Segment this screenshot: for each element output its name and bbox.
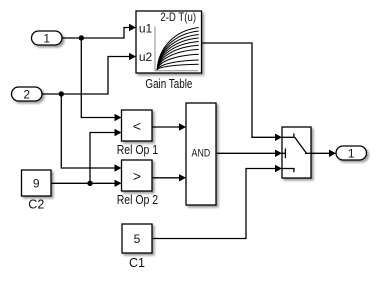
node junction on Inport 1 wire	[79, 35, 84, 40]
wire from constant C2 to Rel Op 2 input 2	[51, 180, 122, 187]
svg-text:Rel Op 1: Rel Op 1	[117, 143, 158, 157]
wire Gain Table output to Switch input 1	[202, 43, 283, 141]
switch input 1 stub	[282, 136, 295, 138]
wire from Inport 2 to Gain Table u2	[42, 53, 136, 94]
constant C1 block (5)	[122, 224, 152, 253]
wire from junction to Rel Op 2 input 1	[61, 94, 121, 172]
switch output stub	[305, 152, 311, 154]
svg-text:<: <	[133, 118, 141, 134]
wire Rel Op 1 output to AND input 1	[152, 123, 186, 130]
constant C2 block (9)	[22, 170, 52, 196]
Rel Op 1 block (<)	[122, 110, 153, 141]
svg-text:u2: u2	[139, 50, 153, 64]
svg-text:>: >	[133, 168, 141, 184]
AND logical operator block	[186, 103, 216, 205]
svg-text:Rel Op 2: Rel Op 2	[117, 193, 158, 207]
wire from junction to Rel Op 1 input 2	[90, 129, 122, 184]
lookup graph curves	[157, 28, 199, 70]
node junction on Inport 2 wire	[59, 91, 64, 96]
lookup graph axes	[155, 27, 198, 71]
svg-text:C2: C2	[28, 198, 44, 212]
Outport 1 oval	[336, 146, 367, 160]
svg-text:C1: C1	[129, 256, 145, 270]
node junction on C2 wire	[87, 181, 92, 186]
Rel Op 2 block (>)	[122, 160, 153, 191]
wire constant C1 to Switch input 3	[152, 165, 282, 239]
wire AND output to Switch input 2	[216, 150, 282, 157]
wire Rel Op 2 output to AND input 2	[152, 174, 186, 181]
svg-text:1: 1	[43, 31, 50, 45]
switch input 3 stub	[282, 168, 295, 170]
svg-text:2-D T(u): 2-D T(u)	[160, 10, 196, 24]
svg-text:9: 9	[33, 177, 40, 191]
2-D Lookup Table block (Gain Table)	[136, 10, 202, 73]
svg-text:Gain Table: Gain Table	[145, 77, 192, 91]
Switch block	[282, 127, 311, 178]
Inport 1 oval	[32, 31, 63, 45]
wire from Inport 1 to Gain Table u1	[62, 24, 136, 38]
svg-text:1: 1	[348, 146, 355, 160]
svg-text:AND: AND	[192, 148, 211, 160]
svg-text:5: 5	[134, 232, 141, 246]
Inport 2 oval	[12, 87, 43, 101]
switch input 2 stub with criterion bar	[282, 152, 285, 154]
wire Switch output to Outport 1	[311, 150, 336, 157]
svg-text:u1: u1	[139, 22, 153, 36]
switch throw diagonal	[295, 137, 307, 153]
wire from junction to Rel Op 1 input 1	[81, 38, 121, 121]
svg-text:2: 2	[23, 87, 30, 101]
